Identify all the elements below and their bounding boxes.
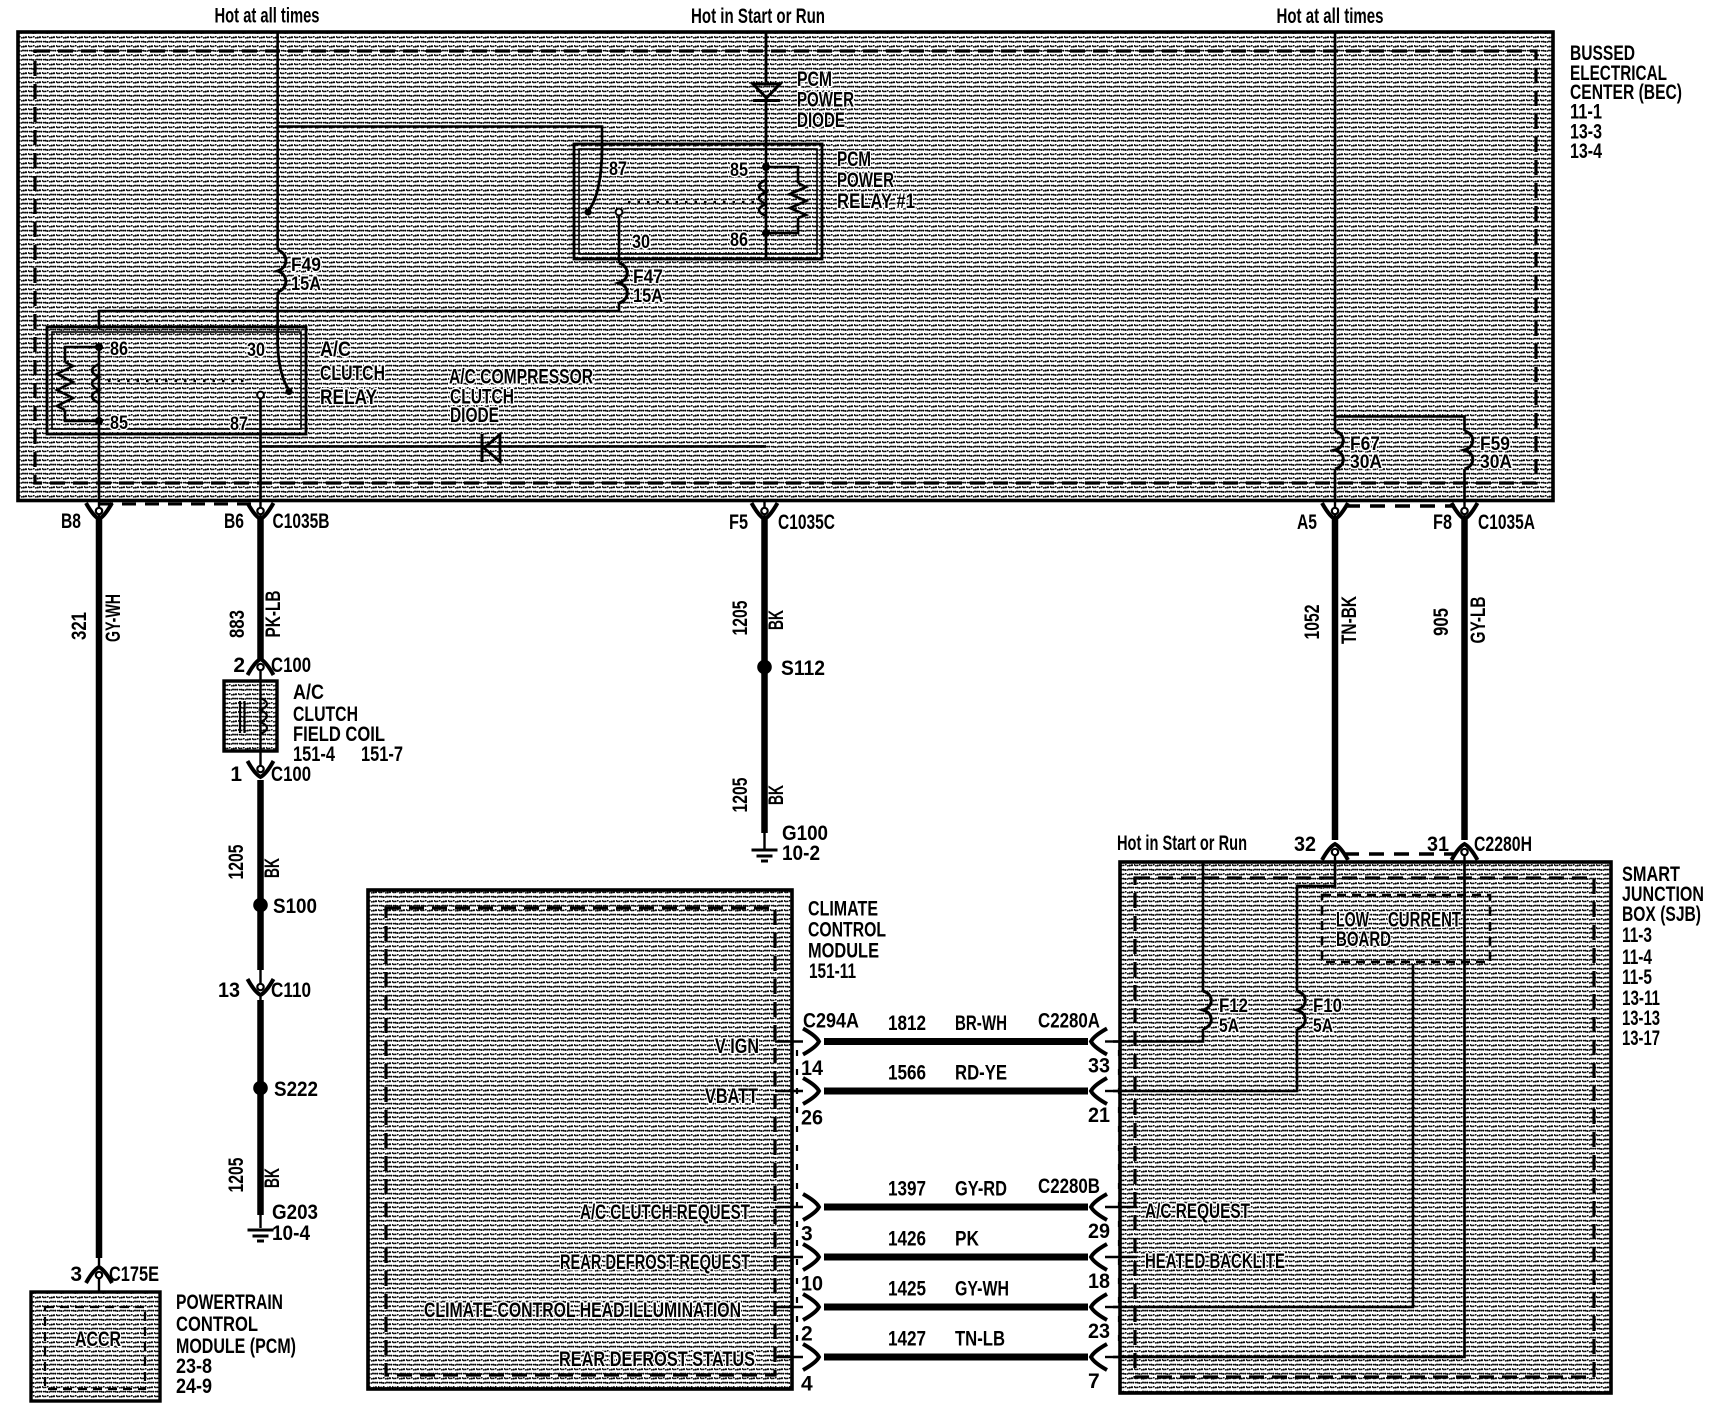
fuse F59 30A [1465,431,1513,473]
connector 1 C100 [230,751,311,786]
Climate Control Module (CCM) box [368,890,792,1389]
svg-text:VBATT: VBATT [705,1085,758,1108]
svg-text:1426: 1426 [888,1228,926,1251]
svg-text:C175E: C175E [109,1263,159,1286]
svg-text:ACCR: ACCR [75,1328,121,1351]
svg-text:C110: C110 [271,979,311,1002]
wire 1566 RD-YE (CCM to SJB) [775,1062,1110,1130]
svg-text:A5: A5 [1297,511,1317,534]
svg-text:CLIMATE: CLIMATE [808,898,878,921]
connector A5 (C1035A) [1297,501,1348,535]
svg-text:13: 13 [218,979,240,1002]
ground G203 10-4 [248,1201,319,1245]
wire 1427 TN-LB (CCM to SJB) [775,1328,1107,1396]
svg-text:21: 21 [1088,1104,1110,1127]
svg-text:1052: 1052 [1301,605,1324,640]
svg-text:3: 3 [70,1263,82,1286]
wire: A/C clutch relay pin 87 output to B6 [259,434,262,501]
svg-text:C294A: C294A [803,1010,859,1033]
svg-text:30: 30 [632,232,650,253]
connector 2 C100 [233,654,311,681]
svg-text:1812: 1812 [888,1012,926,1035]
svg-text:Hot in Start or Run: Hot in Start or Run [691,5,825,28]
BEC name label [1570,42,1682,163]
svg-text:5A: 5A [1313,1016,1333,1037]
CCM pin function labels [424,1035,759,1371]
wire: left Hot at all times feed into F49 [276,32,279,250]
Bussed Electrical Center (BEC) box [18,32,1553,501]
wire: F49 to A/C clutch relay pin 30 [276,292,279,329]
svg-text:C2280B: C2280B [1038,1175,1100,1198]
wire 1052 TN-BK (A5 to SJB pin 32) [1301,519,1361,840]
svg-text:CONTROL: CONTROL [176,1313,258,1336]
svg-text:15A: 15A [291,274,321,295]
svg-text:86: 86 [730,230,748,251]
svg-text:87: 87 [230,414,248,435]
svg-text:TN-BK: TN-BK [1338,596,1361,644]
wire 1397 GY-RD (CCM to SJB) [775,1175,1110,1246]
svg-text:C1035C: C1035C [778,511,835,534]
connector F8 C1035A [1433,501,1535,535]
svg-text:S222: S222 [274,1078,318,1101]
svg-text:1566: 1566 [888,1062,926,1085]
wire stub into SJB for 1397 [1105,1206,1137,1208]
wire stub into SJB for 1425 [1105,1306,1120,1308]
ground G100 10-2 [752,822,829,865]
splice S112 [757,657,825,680]
wire: A/C clutch relay pin 85 to B8 [98,424,101,501]
svg-text:18: 18 [1088,1270,1110,1293]
splice S100 [253,895,317,918]
svg-text:BOARD: BOARD [1336,928,1391,951]
svg-text:BOX (SJB): BOX (SJB) [1622,903,1701,926]
connector pin 31 C2280H [1427,833,1532,862]
svg-text:DIODE: DIODE [450,404,499,427]
svg-text:1205: 1205 [729,600,752,635]
wire 1425 GY-WH (CCM to SJB) [775,1278,1110,1346]
dashed connector line C1035B between B8 and B6 [99,503,261,506]
svg-text:RELAY: RELAY [320,386,377,409]
connector F5 C1035C [729,501,835,535]
svg-text:C1035A: C1035A [1478,511,1535,534]
svg-text:BR-WH: BR-WH [955,1012,1007,1035]
connector B6 C1035B [224,501,330,534]
PCM relay contact: pin 87 blade and pin 30 terminal [584,146,758,263]
wire 1205 BK (F5 to S112) [729,519,788,667]
svg-text:GY-RD: GY-RD [955,1178,1007,1201]
connector B8 (C1035B) [61,501,112,534]
svg-text:85: 85 [110,413,128,434]
A/C CLUTCH RELAY label [320,338,385,409]
svg-text:CLUTCH: CLUTCH [320,362,385,385]
svg-text:1425: 1425 [888,1278,926,1301]
svg-text:1205: 1205 [225,1157,248,1192]
svg-text:C2280A: C2280A [1038,1010,1100,1033]
A/C COMPRESSOR CLUTCH DIODE label [449,366,593,428]
svg-text:F12: F12 [1219,996,1248,1017]
svg-text:29: 29 [1088,1220,1110,1243]
Smart Junction Box (SJB) [1120,862,1611,1393]
wire stub into SJB for 1566 [1105,1090,1120,1092]
SMART JUNCTION BOX (SJB) label [1622,863,1704,1050]
connector 3 C175E [70,1263,159,1292]
svg-text:BK: BK [261,1168,284,1188]
svg-text:BK: BK [261,858,284,878]
Powertrain Control Module (PCM) box with ACCR [31,1292,160,1401]
fuse F47 15A [619,263,663,307]
svg-text:23: 23 [1088,1320,1110,1343]
svg-text:POWERTRAIN: POWERTRAIN [176,1291,283,1314]
PCM relay pin labels 87 85 30 86 [609,159,748,253]
svg-text:GY-WH: GY-WH [955,1278,1009,1301]
svg-text:F5: F5 [729,511,748,534]
svg-text:1205: 1205 [225,844,248,879]
svg-text:B6: B6 [224,510,244,533]
svg-text:F10: F10 [1313,996,1342,1017]
svg-text:S112: S112 [781,657,825,680]
svg-text:151-7: 151-7 [361,743,403,766]
dashed connector line C1035A between A5 and F8 [1345,504,1455,508]
svg-text:CONTROL: CONTROL [808,919,886,942]
svg-text:DIODE: DIODE [797,109,845,132]
wire 321 GY-WH (B8 to PCM) [68,519,125,1266]
svg-text:C1035B: C1035B [273,510,330,533]
svg-text:RELAY #1: RELAY #1 [837,190,915,213]
wire: pin 32 to F10 [1297,862,1335,991]
wire 1205 BK (S112 to G100) [729,667,788,850]
svg-text:2: 2 [233,654,245,677]
svg-text:F47: F47 [633,267,663,288]
svg-text:S100: S100 [273,895,317,918]
svg-text:1205: 1205 [729,777,752,812]
svg-text:86: 86 [110,339,128,360]
wire 1205 BK (field coil to S100) [225,780,284,905]
A/C clutch field coil [224,681,277,751]
svg-text:13-4: 13-4 [1570,140,1602,163]
svg-text:C100: C100 [271,763,311,786]
PCM relay coil 85-86 with parallel resistor [759,146,806,257]
wire: right Hot at all times feed into F67 [1334,32,1337,431]
wire: F10 to VBATT pin [1113,1029,1297,1091]
svg-text:4: 4 [801,1373,813,1396]
wire: pin 31 through LCB to pin 7 [1113,862,1465,1357]
svg-text:11-3: 11-3 [1622,924,1652,947]
fuse F49 15A [278,250,322,295]
svg-text:15A: 15A [633,286,663,307]
svg-text:7: 7 [1088,1370,1100,1393]
wire stub into SJB for 1427 [1105,1356,1120,1358]
A/C clutch relay contact: pin 30 blade and pin 87 terminal [108,329,293,434]
svg-text:A/C: A/C [293,681,324,704]
diode: A/C compressor clutch diode [482,434,500,462]
svg-text:87: 87 [609,159,627,180]
svg-text:TN-LB: TN-LB [955,1328,1005,1351]
svg-text:30A: 30A [1480,452,1512,473]
svg-text:B8: B8 [61,510,81,533]
svg-text:Hot in Start or Run: Hot in Start or Run [1117,832,1247,855]
dashed connector line C2280A/C2280B (vertical) [1118,1050,1120,1350]
svg-text:11-5: 11-5 [1622,966,1652,989]
svg-text:BK: BK [765,610,788,630]
svg-text:1397: 1397 [888,1178,926,1201]
svg-text:REAR DEFROST STATUS: REAR DEFROST STATUS [559,1348,755,1371]
svg-text:GY-LB: GY-LB [1467,597,1490,644]
svg-text:26: 26 [801,1107,823,1130]
svg-text:REAR DEFROST REQUEST: REAR DEFROST REQUEST [560,1251,750,1274]
connector pin 32 (C2280H) [1294,833,1348,862]
svg-text:85: 85 [730,160,748,181]
svg-text:C100: C100 [271,654,311,677]
CLIMATE CONTROL MODULE label [808,898,886,984]
svg-text:30: 30 [247,340,265,361]
svg-text:A/C CLUTCH REQUEST: A/C CLUTCH REQUEST [580,1201,750,1224]
PCM POWER RELAY #1 label [837,148,915,213]
svg-text:151-11: 151-11 [809,960,856,983]
wire: LCB to pin 18 [1113,964,1413,1307]
wire: clutch diode branch [261,445,767,448]
svg-text:13-17: 13-17 [1622,1027,1660,1050]
svg-text:883: 883 [226,610,249,638]
wire 1205 BK (S222 to G203) [225,1088,284,1228]
svg-text:RD-YE: RD-YE [955,1062,1007,1085]
splice S222 [253,1078,318,1101]
svg-text:10: 10 [801,1273,823,1296]
svg-text:5A: 5A [1219,1016,1239,1037]
wire: F12 to V IGN pin [1113,1029,1203,1042]
relay U1: PCM power relay #1 box [574,144,822,259]
svg-text:PK-LB: PK-LB [262,591,285,638]
svg-text:A/C: A/C [320,338,351,361]
svg-text:C2280H: C2280H [1474,833,1532,856]
wire: branch to F59 [1335,417,1465,432]
wire 1426 PK (CCM to SJB) [775,1228,1110,1296]
svg-text:HEATED BACKLITE: HEATED BACKLITE [1145,1250,1285,1273]
wire: F59 to F8 [1463,469,1466,501]
svg-text:32: 32 [1294,833,1316,856]
wire 883 PK-LB (B6 to C100) [226,519,285,659]
wire: F47 to A/C clutch relay coil pin 86 [99,303,619,329]
wire: F67 to A5 [1334,469,1337,501]
svg-text:3: 3 [801,1223,813,1246]
wire 1812 BR-WH (CCM to SJB) [775,1010,1110,1081]
POWERTRAIN CONTROL MODULE (PCM) label [176,1291,296,1398]
fuse F67 30A [1335,431,1382,473]
svg-text:10-4: 10-4 [272,1222,310,1245]
svg-text:A/C REQUEST: A/C REQUEST [1145,1200,1250,1223]
SJB signal labels A/C REQUEST and HEATED BACKLITE [1145,1200,1285,1273]
svg-text:V IGN: V IGN [715,1035,759,1058]
wire: SJB ignition feed to F12 [1202,862,1205,991]
wire 905 GY-LB (F8 to SJB pin 31) [1430,519,1490,840]
svg-text:PCM: PCM [837,148,871,171]
svg-text:F8: F8 [1433,511,1452,534]
A/C CLUTCH FIELD COIL label [293,681,403,766]
svg-text:Hot at all times: Hot at all times [1277,5,1384,28]
connector 13 C110 [218,979,311,1002]
svg-text:BK: BK [765,785,788,805]
wire stub into SJB for 1426 [1105,1256,1137,1258]
relay K1: A/C clutch relay box [47,327,306,434]
svg-text:GY-WH: GY-WH [102,594,125,642]
svg-text:F49: F49 [291,255,321,276]
svg-text:321: 321 [68,612,91,640]
svg-text:CURRENT: CURRENT [1388,909,1461,932]
fuse F12 5A [1203,991,1248,1037]
dashed connector line C2280H [1344,852,1455,856]
A/C clutch relay pin labels 86 85 30 87 [110,339,265,435]
svg-text:POWER: POWER [837,169,894,192]
svg-text:33: 33 [1088,1055,1110,1078]
PCM POWER DIODE label [797,68,854,132]
wire stub into SJB for 1812 [1105,1040,1120,1042]
svg-text:24-9: 24-9 [176,1375,212,1398]
svg-text:1427: 1427 [888,1328,926,1351]
svg-text:31: 31 [1427,833,1449,856]
Low Current Board (dashed box) [1322,895,1490,962]
svg-text:Hot at all times: Hot at all times [215,5,320,28]
fuse F10 5A [1297,991,1342,1037]
diode: PCM power diode [753,32,780,146]
svg-text:2: 2 [801,1323,813,1346]
svg-text:1: 1 [230,763,242,786]
svg-text:PK: PK [955,1228,979,1251]
svg-text:10-2: 10-2 [782,842,820,865]
svg-text:G203: G203 [272,1201,318,1224]
dashed connector line C294A (vertical) [796,1050,798,1350]
wire: C110 to S222 [257,1000,264,1088]
svg-text:CLIMATE CONTROL HEAD ILLUMINAT: CLIMATE CONTROL HEAD ILLUMINATION [424,1299,741,1322]
wire: S100 to C110 [257,905,264,986]
svg-text:905: 905 [1430,608,1453,636]
svg-text:30A: 30A [1350,452,1382,473]
wire: feed branch to PCM power relay pin 87 [278,127,602,147]
A/C clutch relay coil 86-85 with parallel resistor [57,343,103,425]
